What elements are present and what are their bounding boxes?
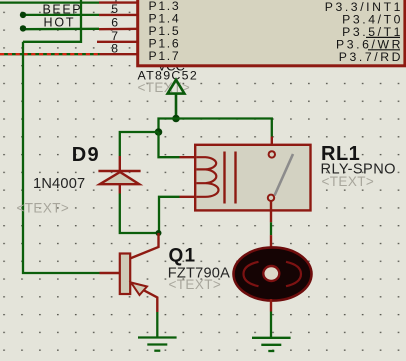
pin names P1.3-P1.7	[149, 0, 181, 63]
motor brush right	[286, 262, 301, 286]
wire relay bottom contact to motor	[270, 201, 272, 222]
relay contact bottom	[268, 195, 274, 201]
wire red stub into relay contact	[271, 137, 273, 153]
transistor Q1 base lead	[100, 272, 121, 274]
relay coil bottom stub	[180, 196, 197, 198]
svg-text:1N4007: 1N4007	[33, 176, 85, 192]
motor brush left	[244, 262, 259, 286]
wire pin4 to edge	[0, 1, 99, 3]
wire node B down to relay coil top	[159, 132, 180, 157]
pin names P3.3/INT1 .. P3.7/RD	[325, 0, 403, 64]
svg-text:BEEP: BEEP	[43, 3, 83, 17]
wire emitter to ground	[156, 312, 158, 338]
relay switch arm	[275, 154, 294, 196]
wire pin8 (green with red dashes)	[0, 53, 100, 55]
wire node B to diode top	[120, 132, 159, 156]
node A junction dot	[172, 115, 180, 123]
motor armature	[234, 247, 312, 300]
transistor Q1 collector	[130, 233, 159, 259]
overline WR	[366, 36, 400, 38]
ground (Q1 emitter)	[138, 338, 177, 351]
power terminal VCC arrow	[168, 80, 185, 119]
wire diode bottom to node C	[120, 194, 159, 234]
relay RL1 body	[195, 145, 310, 211]
svg-text:D9: D9	[72, 144, 100, 166]
svg-text:8: 8	[111, 41, 118, 55]
wire upper-left L (to top edge)	[23, 0, 81, 42]
node BEEP dot	[20, 12, 26, 18]
wire relay coil bottom to node C	[159, 197, 180, 233]
wire node A to node B	[159, 119, 177, 133]
overline RD	[368, 49, 400, 51]
svg-text:5: 5	[111, 2, 118, 16]
node B junction dot	[155, 128, 163, 136]
svg-text:6: 6	[111, 16, 118, 30]
wire motor bottom to ground	[270, 299, 272, 312]
svg-text:P3.7/RD: P3.7/RD	[339, 50, 403, 64]
wire HOT	[23, 28, 99, 31]
wire BEEP	[23, 14, 99, 16]
svg-text:Q1: Q1	[169, 246, 197, 267]
wire node A to relay contact	[176, 119, 272, 137]
diode D9 top lead	[119, 156, 121, 171]
node HOT dot	[20, 25, 26, 31]
relay contact top	[269, 151, 275, 157]
diode D9 symbol	[98, 171, 140, 184]
node C junction dot	[156, 230, 162, 236]
pin 4 line	[99, 1, 138, 3]
relay coil top stub	[180, 156, 197, 158]
svg-text:HOT: HOT	[44, 16, 76, 30]
transistor Q1 emitter	[130, 283, 157, 312]
relay core bars	[223, 152, 225, 204]
pin 8 line	[100, 53, 139, 55]
svg-text:<TEXT>: <TEXT>	[17, 201, 70, 216]
svg-text:P1.7: P1.7	[149, 49, 181, 63]
pin 5 line	[99, 14, 138, 16]
transistor Q1 bar	[120, 254, 130, 295]
chip U? AT89C52 body	[138, 0, 405, 66]
svg-text:<TEXT>: <TEXT>	[169, 277, 222, 292]
pin 6 line	[99, 28, 138, 31]
svg-text:<TEXT>: <TEXT>	[322, 174, 375, 189]
pin 7 line	[97, 41, 138, 43]
transistor Q1 emitter arrow (PNP)	[131, 283, 147, 296]
wire long left run to Q1 base	[23, 42, 100, 273]
diode D9 bottom lead	[119, 184, 121, 193]
relay coil	[197, 157, 219, 197]
ground (motor)	[252, 338, 291, 351]
motor shaft hole	[263, 266, 279, 281]
